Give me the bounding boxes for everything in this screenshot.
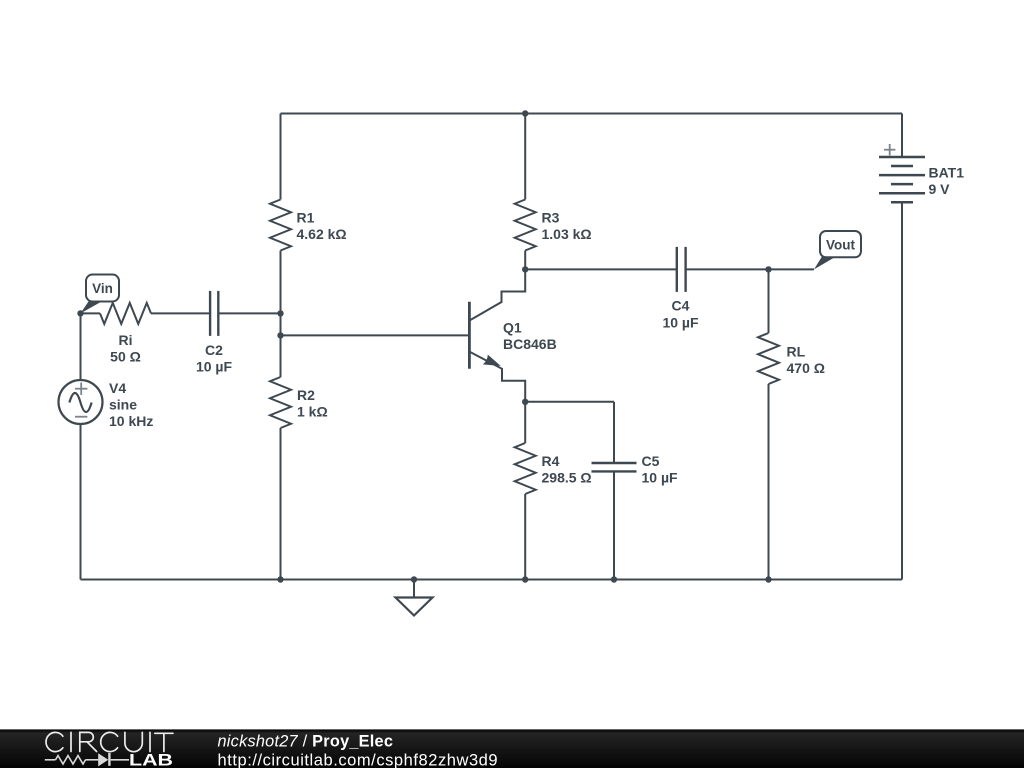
svg-text:10 µF: 10 µF: [642, 470, 679, 486]
svg-text:BC846B: BC846B: [503, 336, 557, 352]
svg-text:50 Ω: 50 Ω: [110, 349, 141, 365]
svg-text:C2: C2: [205, 342, 223, 358]
svg-text:Ri: Ri: [119, 332, 133, 348]
svg-text:Q1: Q1: [503, 320, 522, 336]
svg-text:10 µF: 10 µF: [662, 315, 699, 331]
svg-text:R3: R3: [542, 210, 560, 226]
svg-text:4.62 kΩ: 4.62 kΩ: [297, 226, 347, 242]
svg-text:R1: R1: [297, 210, 315, 226]
svg-text:BAT1: BAT1: [929, 165, 965, 181]
svg-text:10 kHz: 10 kHz: [109, 413, 153, 429]
svg-text:LAB: LAB: [129, 751, 173, 768]
svg-text:V4: V4: [109, 380, 126, 396]
svg-text:470 Ω: 470 Ω: [787, 360, 825, 376]
svg-text:C4: C4: [672, 298, 690, 314]
svg-text:RL: RL: [787, 344, 806, 360]
svg-text:http://circuitlab.com/csphf82z: http://circuitlab.com/csphf82zhw3d9: [218, 751, 499, 768]
svg-text:298.5 Ω: 298.5 Ω: [542, 470, 592, 486]
svg-text:R4: R4: [542, 453, 560, 469]
svg-text:R2: R2: [297, 387, 315, 403]
svg-text:sine: sine: [109, 397, 137, 413]
svg-text:10 µF: 10 µF: [196, 359, 233, 375]
svg-text:9 V: 9 V: [929, 181, 951, 197]
svg-text:C5: C5: [642, 453, 660, 469]
svg-text:Vin: Vin: [92, 281, 113, 296]
svg-text:1.03 kΩ: 1.03 kΩ: [542, 226, 592, 242]
svg-text:nickshot27 / Proy_Elec: nickshot27 / Proy_Elec: [218, 732, 394, 750]
svg-text:1 kΩ: 1 kΩ: [297, 404, 328, 420]
svg-text:Vout: Vout: [826, 238, 855, 253]
